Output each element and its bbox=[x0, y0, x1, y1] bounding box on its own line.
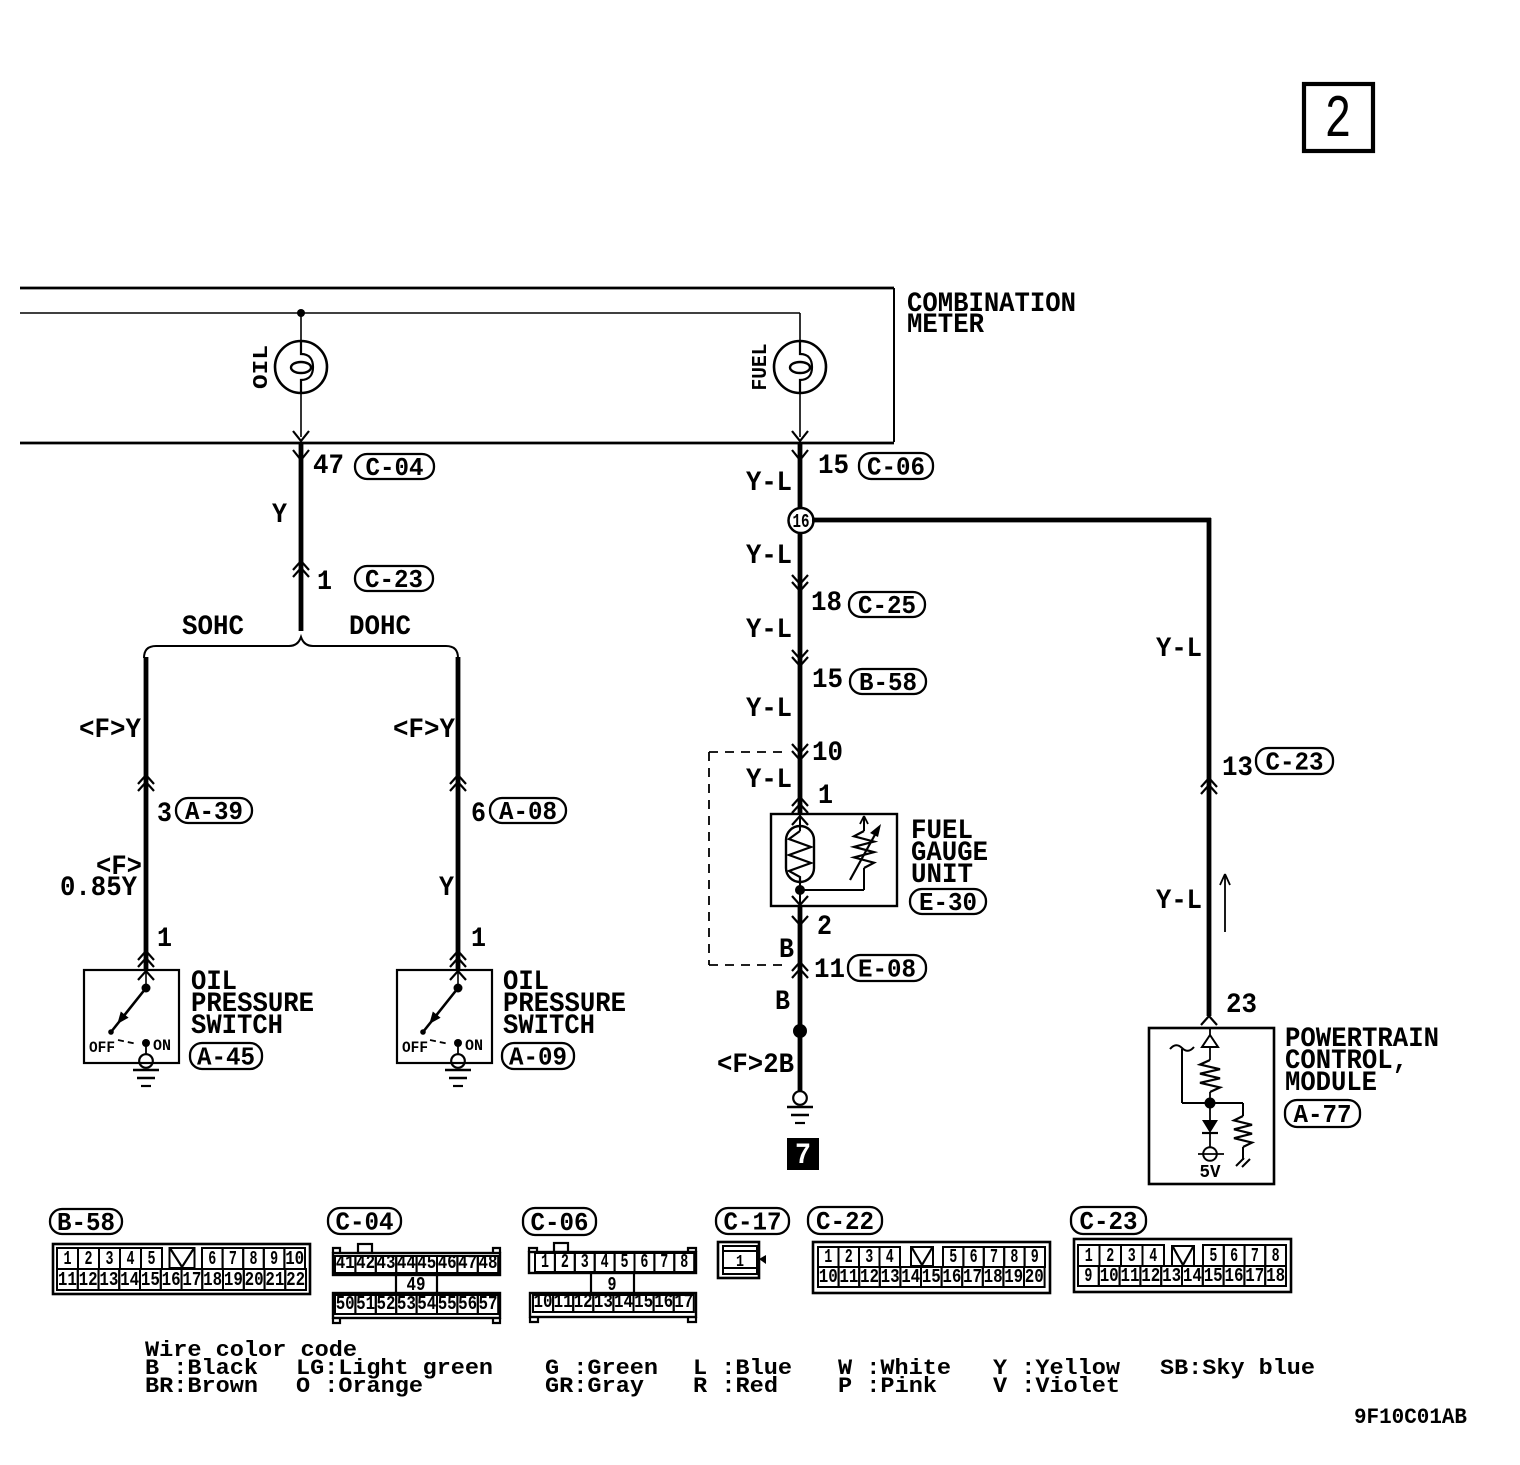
fuel gauge sender resistance element bbox=[786, 814, 814, 884]
svg-text:C-06: C-06 bbox=[531, 1208, 589, 1238]
svg-text:3: 3 bbox=[106, 1248, 114, 1270]
svg-text:13: 13 bbox=[881, 1266, 900, 1288]
svg-text:Y-L: Y-L bbox=[746, 694, 792, 725]
wire OIL lamp to meter connector bbox=[300, 393, 302, 437]
svg-text:A-08: A-08 bbox=[499, 797, 557, 827]
svg-text:16: 16 bbox=[654, 1291, 673, 1313]
svg-text:3: 3 bbox=[865, 1246, 873, 1268]
svg-text:12: 12 bbox=[79, 1269, 98, 1291]
svg-text:A-45: A-45 bbox=[197, 1043, 255, 1073]
svg-text:MODULE: MODULE bbox=[1285, 1068, 1377, 1099]
svg-text:1: 1 bbox=[471, 924, 486, 955]
svg-text:GR:Gray: GR:Gray bbox=[545, 1374, 644, 1399]
svg-text:15: 15 bbox=[634, 1291, 653, 1313]
svg-text:6: 6 bbox=[471, 799, 486, 830]
resistor pull-up in PCM bbox=[1200, 1060, 1220, 1092]
svg-text:<F>2B: <F>2B bbox=[717, 1050, 794, 1081]
svg-text:Y-L: Y-L bbox=[1156, 634, 1202, 665]
svg-text:13: 13 bbox=[1222, 753, 1253, 784]
resistor to ground in PCM bbox=[1210, 1103, 1252, 1167]
svg-text:C-25: C-25 bbox=[858, 591, 916, 621]
svg-text:11: 11 bbox=[814, 955, 845, 986]
svg-text:DOHC: DOHC bbox=[349, 612, 411, 643]
svg-text:METER: METER bbox=[907, 310, 984, 341]
svg-text:7: 7 bbox=[795, 1139, 811, 1173]
svg-text:C-04: C-04 bbox=[366, 453, 424, 483]
inline connector chevrons A-08 pin 6 bbox=[450, 775, 466, 784]
arrowhead at meter box exit (FUEL) bbox=[792, 431, 808, 441]
inline connector chevrons pin 10 bbox=[792, 744, 808, 753]
svg-text:C-22: C-22 bbox=[816, 1207, 874, 1237]
svg-text:Y: Y bbox=[439, 873, 454, 904]
indicator lamp OIL bbox=[251, 341, 327, 393]
svg-text:OIL: OIL bbox=[251, 345, 274, 389]
arrowhead at meter box exit (OIL) bbox=[293, 431, 309, 441]
svg-text:C-23: C-23 bbox=[1080, 1207, 1138, 1237]
svg-text:6: 6 bbox=[970, 1246, 978, 1268]
ground below switch A-09 bbox=[445, 1054, 471, 1086]
page number box 2 bbox=[1304, 84, 1373, 155]
svg-text:42: 42 bbox=[356, 1252, 375, 1274]
wire Y-L node 16 down to fuel gauge unit bbox=[798, 533, 803, 814]
wire Y-L meter pin 15 to node 16 bbox=[798, 443, 803, 509]
connector ref A-45 bbox=[190, 1043, 262, 1073]
svg-text:SB:Sky blue: SB:Sky blue bbox=[1160, 1356, 1315, 1381]
svg-text:7: 7 bbox=[1251, 1245, 1259, 1267]
chevron at fuel gauge exit bbox=[792, 896, 808, 905]
svg-text:11: 11 bbox=[1121, 1265, 1140, 1287]
junction inside fuel gauge unit bbox=[795, 885, 805, 895]
svg-text:Y-L: Y-L bbox=[1156, 886, 1202, 917]
svg-text:C-23: C-23 bbox=[1266, 748, 1324, 778]
svg-text:19: 19 bbox=[1004, 1266, 1023, 1288]
svg-text:FUEL: FUEL bbox=[750, 344, 773, 391]
svg-text:SOHC: SOHC bbox=[182, 612, 244, 643]
svg-text:8: 8 bbox=[1272, 1245, 1280, 1267]
svg-text:16: 16 bbox=[793, 511, 810, 533]
svg-text:14: 14 bbox=[1183, 1265, 1202, 1287]
connector ref C-23 bbox=[355, 565, 433, 595]
svg-text:48: 48 bbox=[479, 1252, 498, 1274]
junction inside PCM bbox=[1205, 1098, 1216, 1109]
svg-text:E-30: E-30 bbox=[919, 888, 977, 918]
svg-text:O :Orange: O :Orange bbox=[296, 1374, 423, 1399]
svg-text:V :Violet: V :Violet bbox=[993, 1374, 1120, 1399]
svg-text:A-77: A-77 bbox=[1294, 1100, 1352, 1130]
svg-text:20: 20 bbox=[1025, 1266, 1044, 1288]
svg-text:ON: ON bbox=[153, 1037, 171, 1055]
svg-text:16: 16 bbox=[162, 1269, 181, 1291]
svg-text:1: 1 bbox=[1085, 1245, 1093, 1267]
svg-text:Y-L: Y-L bbox=[746, 541, 792, 572]
svg-text:BR:Brown: BR:Brown bbox=[145, 1374, 258, 1399]
svg-text:3: 3 bbox=[581, 1251, 589, 1273]
brace splitting SOHC/DOHC bbox=[144, 637, 458, 658]
svg-text:6: 6 bbox=[640, 1251, 648, 1273]
connector ref C-06 bbox=[859, 453, 933, 483]
svg-text:55: 55 bbox=[438, 1293, 457, 1315]
dashed harness boundary box bbox=[709, 752, 788, 965]
svg-text:1: 1 bbox=[818, 781, 833, 812]
svg-text:21: 21 bbox=[265, 1269, 284, 1291]
svg-text:2: 2 bbox=[817, 912, 832, 943]
svg-text:56: 56 bbox=[458, 1293, 477, 1315]
svg-text:10: 10 bbox=[812, 738, 843, 769]
svg-text:23: 23 bbox=[1226, 990, 1257, 1021]
svg-text:54: 54 bbox=[417, 1293, 436, 1315]
svg-text:<F>Y: <F>Y bbox=[393, 715, 455, 746]
svg-text:15: 15 bbox=[922, 1266, 941, 1288]
svg-text:17: 17 bbox=[963, 1266, 982, 1288]
svg-text:E-08: E-08 bbox=[858, 955, 916, 985]
diode in PCM bbox=[1202, 1103, 1218, 1147]
junction node on bus (OIL lamp tap) bbox=[297, 309, 305, 317]
connector ref C-04 bbox=[355, 453, 434, 483]
wire color code legend bbox=[145, 1338, 1315, 1399]
svg-text:16: 16 bbox=[942, 1266, 961, 1288]
svg-text:47: 47 bbox=[313, 451, 344, 482]
svg-text:B-58: B-58 bbox=[859, 668, 917, 698]
svg-text:UNIT: UNIT bbox=[911, 860, 973, 891]
svg-text:8: 8 bbox=[250, 1248, 258, 1270]
svg-text:18: 18 bbox=[984, 1266, 1003, 1288]
svg-text:10: 10 bbox=[534, 1291, 553, 1313]
fuel gauge variable resistor (float arm) bbox=[800, 816, 881, 890]
node 16 splice bbox=[789, 508, 814, 533]
svg-text:A-09: A-09 bbox=[509, 1043, 567, 1073]
svg-text:11: 11 bbox=[554, 1291, 573, 1313]
svg-text:Y: Y bbox=[272, 500, 287, 531]
inline connector chevrons C-25 pin 18 bbox=[792, 575, 808, 584]
wire sender to pin 2 bbox=[799, 882, 801, 906]
connector ref A-09 bbox=[502, 1043, 574, 1073]
5V supply symbol bbox=[1198, 1147, 1224, 1183]
inline connector chevrons B-58 pin 15 bbox=[792, 650, 808, 659]
connector pinout C-17 bbox=[718, 1242, 766, 1278]
connector ref C-23 (PCM branch) bbox=[1256, 748, 1333, 778]
connector ref A-08 bbox=[490, 797, 566, 827]
svg-text:SWITCH: SWITCH bbox=[191, 1011, 283, 1042]
svg-text:4: 4 bbox=[1149, 1245, 1157, 1267]
svg-text:7: 7 bbox=[990, 1246, 998, 1268]
svg-text:8: 8 bbox=[680, 1251, 688, 1273]
svg-text:3: 3 bbox=[157, 799, 172, 830]
connector ref E-30 bbox=[910, 888, 986, 918]
connector pinout label C-04 bbox=[328, 1208, 401, 1238]
svg-text:43: 43 bbox=[377, 1252, 396, 1274]
PCM sense line with squiggle bbox=[1170, 1045, 1205, 1103]
svg-text:6: 6 bbox=[208, 1248, 216, 1270]
svg-text:57: 57 bbox=[479, 1293, 498, 1315]
svg-text:SWITCH: SWITCH bbox=[503, 1011, 595, 1042]
connector pinout C-23 bbox=[1074, 1239, 1291, 1292]
svg-text:52: 52 bbox=[377, 1293, 396, 1315]
connector ref B-58 bbox=[850, 668, 926, 698]
svg-text:2: 2 bbox=[1106, 1245, 1114, 1267]
svg-text:22: 22 bbox=[286, 1269, 305, 1291]
svg-text:18: 18 bbox=[811, 588, 842, 619]
arrowhead below meter box (OIL) bbox=[293, 450, 309, 460]
connector pinout label C-17 bbox=[716, 1208, 789, 1238]
ground below switch A-45 bbox=[133, 1054, 159, 1086]
svg-text:15: 15 bbox=[812, 665, 843, 696]
svg-text:5: 5 bbox=[949, 1246, 957, 1268]
svg-text:14: 14 bbox=[901, 1266, 920, 1288]
connector pinout label C-06 bbox=[523, 1208, 596, 1238]
svg-text:13: 13 bbox=[594, 1291, 613, 1313]
wire Y-L down to PCM pin 23 bbox=[1207, 518, 1212, 1016]
ground reference box 7 bbox=[787, 1138, 819, 1173]
svg-text:C-06: C-06 bbox=[867, 453, 925, 483]
svg-text:12: 12 bbox=[860, 1266, 879, 1288]
svg-text:A-39: A-39 bbox=[185, 797, 243, 827]
svg-text:11: 11 bbox=[58, 1269, 77, 1291]
connector ref C-25 bbox=[849, 591, 925, 621]
svg-text:R :Red: R :Red bbox=[693, 1374, 778, 1399]
wire bus to OIL lamp bbox=[300, 313, 302, 341]
connector pinout label B-58 bbox=[50, 1208, 122, 1238]
svg-text:5: 5 bbox=[621, 1251, 629, 1273]
svg-text:45: 45 bbox=[417, 1252, 436, 1274]
svg-text:51: 51 bbox=[356, 1293, 375, 1315]
svg-text:15: 15 bbox=[818, 451, 849, 482]
svg-text:C-04: C-04 bbox=[336, 1208, 394, 1238]
wire PCM pin 23 to triangle bbox=[1209, 1028, 1211, 1035]
svg-text:15: 15 bbox=[1204, 1265, 1223, 1287]
junction node on ground wire bbox=[793, 1024, 807, 1038]
connector pinout label C-22 bbox=[808, 1207, 882, 1237]
svg-text:4: 4 bbox=[886, 1246, 894, 1268]
inline connector chevrons C-23 pin 1 bbox=[293, 561, 309, 570]
connector pinout C-22 bbox=[813, 1242, 1050, 1293]
chassis ground (fuel circuit) bbox=[787, 1091, 813, 1123]
svg-text:4: 4 bbox=[127, 1248, 135, 1270]
connector pinout C-04 bbox=[333, 1244, 500, 1323]
svg-text:12: 12 bbox=[1141, 1265, 1160, 1287]
svg-text:17: 17 bbox=[182, 1269, 201, 1291]
fuel gauge unit box E-30 bbox=[771, 814, 897, 906]
svg-text:12: 12 bbox=[574, 1291, 593, 1313]
svg-text:2: 2 bbox=[1325, 87, 1352, 155]
svg-text:C-17: C-17 bbox=[724, 1208, 782, 1238]
svg-text:P :Pink: P :Pink bbox=[838, 1374, 937, 1399]
inline chevrons at switch A-09 bbox=[450, 951, 466, 960]
svg-text:1: 1 bbox=[317, 567, 332, 598]
svg-text:7: 7 bbox=[229, 1248, 237, 1270]
svg-text:47: 47 bbox=[458, 1252, 477, 1274]
svg-text:17: 17 bbox=[674, 1291, 693, 1313]
svg-text:OFF: OFF bbox=[89, 1039, 115, 1057]
connector pinout label C-23 bbox=[1071, 1207, 1146, 1237]
svg-text:44: 44 bbox=[397, 1252, 416, 1274]
svg-text:15: 15 bbox=[141, 1269, 160, 1291]
svg-text:8: 8 bbox=[1010, 1246, 1018, 1268]
svg-text:ON: ON bbox=[465, 1037, 483, 1055]
svg-text:10: 10 bbox=[1100, 1265, 1119, 1287]
svg-text:2: 2 bbox=[85, 1248, 93, 1270]
svg-text:C-23: C-23 bbox=[365, 565, 423, 595]
wire DOHC branch bbox=[456, 657, 461, 970]
svg-text:2: 2 bbox=[561, 1251, 569, 1273]
svg-text:46: 46 bbox=[438, 1252, 457, 1274]
svg-text:17: 17 bbox=[1245, 1265, 1264, 1287]
signal direction arrow bbox=[1220, 874, 1230, 932]
svg-text:10: 10 bbox=[285, 1248, 304, 1270]
inline chevrons at switch A-45 bbox=[138, 951, 154, 960]
connector ref A-39 bbox=[176, 797, 252, 827]
wire Y-L node 16 to PCM (horizontal) bbox=[812, 518, 1211, 523]
connector ref E-08 bbox=[848, 955, 926, 985]
svg-text:<F>Y: <F>Y bbox=[79, 715, 141, 746]
chevron below fuel gauge box bbox=[792, 916, 808, 925]
svg-text:1: 1 bbox=[541, 1251, 549, 1273]
connector ref A-77 bbox=[1285, 1100, 1360, 1130]
inline connector chevrons A-39 pin 3 bbox=[138, 775, 154, 784]
combination meter box right edge bbox=[893, 288, 895, 442]
wire SOHC branch bbox=[144, 657, 149, 970]
svg-text:5V: 5V bbox=[1200, 1163, 1221, 1183]
chevron inside fuel gauge box bbox=[792, 816, 808, 825]
svg-text:50: 50 bbox=[336, 1293, 355, 1315]
combination meter box bottom edge bbox=[20, 442, 894, 445]
svg-text:16: 16 bbox=[1225, 1265, 1244, 1287]
svg-text:3: 3 bbox=[1128, 1245, 1136, 1267]
svg-text:11: 11 bbox=[839, 1266, 858, 1288]
svg-text:18: 18 bbox=[1266, 1265, 1285, 1287]
chevron at PCM pin 23 bbox=[1201, 1016, 1217, 1025]
wire B from fuel gauge pin 2 to ground bbox=[798, 906, 803, 1091]
connector pinout B-58 bbox=[53, 1244, 310, 1294]
wire Y from meter pin 47 bbox=[299, 443, 304, 631]
svg-text:10: 10 bbox=[819, 1266, 838, 1288]
svg-text:Y-L: Y-L bbox=[746, 468, 792, 499]
svg-text:B: B bbox=[779, 935, 794, 966]
svg-text:14: 14 bbox=[120, 1269, 139, 1291]
svg-text:9: 9 bbox=[1031, 1246, 1039, 1268]
svg-text:5: 5 bbox=[1209, 1245, 1217, 1267]
svg-text:2: 2 bbox=[845, 1246, 853, 1268]
svg-text:B-58: B-58 bbox=[57, 1208, 115, 1238]
wire FUEL lamp to meter connector bbox=[799, 393, 801, 437]
indicator gauge FUEL bbox=[750, 341, 826, 393]
PCM input buffer triangle bbox=[1202, 1035, 1218, 1047]
svg-text:53: 53 bbox=[397, 1293, 416, 1315]
svg-text:1: 1 bbox=[157, 924, 172, 955]
svg-text:0.85Y: 0.85Y bbox=[60, 873, 137, 904]
combination meter internal bus wire bbox=[20, 312, 800, 314]
inline connector chevrons C-23 pin 13 bbox=[1201, 778, 1217, 787]
svg-text:1: 1 bbox=[64, 1248, 72, 1270]
combination meter box top edge bbox=[20, 287, 894, 290]
svg-text:9: 9 bbox=[270, 1248, 278, 1270]
inline connector chevrons E-08 pin 11 bbox=[792, 962, 808, 971]
svg-text:19: 19 bbox=[224, 1269, 243, 1291]
svg-text:B: B bbox=[775, 987, 790, 1018]
svg-text:Y-L: Y-L bbox=[746, 765, 792, 796]
powertrain control module box A-77 bbox=[1149, 1028, 1274, 1184]
svg-text:6: 6 bbox=[1230, 1245, 1238, 1267]
svg-text:4: 4 bbox=[601, 1251, 609, 1273]
wire resistor to junction bbox=[1209, 1092, 1211, 1103]
oil pressure switch A-45 (SOHC) bbox=[84, 970, 179, 1063]
connector pinout C-06 bbox=[529, 1243, 696, 1322]
svg-text:OFF: OFF bbox=[402, 1039, 428, 1057]
oil pressure switch A-09 (DOHC) bbox=[397, 970, 492, 1063]
svg-text:1: 1 bbox=[824, 1246, 832, 1268]
svg-text:1: 1 bbox=[736, 1253, 744, 1272]
svg-text:Y-L: Y-L bbox=[746, 615, 792, 646]
svg-text:5: 5 bbox=[148, 1248, 156, 1270]
inline chevrons fuel gauge pin 1 bbox=[792, 797, 808, 806]
svg-text:13: 13 bbox=[1162, 1265, 1181, 1287]
svg-text:20: 20 bbox=[245, 1269, 264, 1291]
svg-text:18: 18 bbox=[203, 1269, 222, 1291]
wire bus corner to FUEL lamp bbox=[799, 313, 801, 341]
wire triangle to pull-up resistor bbox=[1209, 1047, 1211, 1060]
svg-text:9: 9 bbox=[1084, 1265, 1092, 1287]
svg-text:14: 14 bbox=[614, 1291, 633, 1313]
svg-text:7: 7 bbox=[660, 1251, 668, 1273]
arrowhead below meter box (FUEL) bbox=[792, 450, 808, 460]
svg-text:13: 13 bbox=[99, 1269, 118, 1291]
svg-text:41: 41 bbox=[336, 1252, 355, 1274]
svg-text:9F10C01AB: 9F10C01AB bbox=[1354, 1405, 1467, 1430]
